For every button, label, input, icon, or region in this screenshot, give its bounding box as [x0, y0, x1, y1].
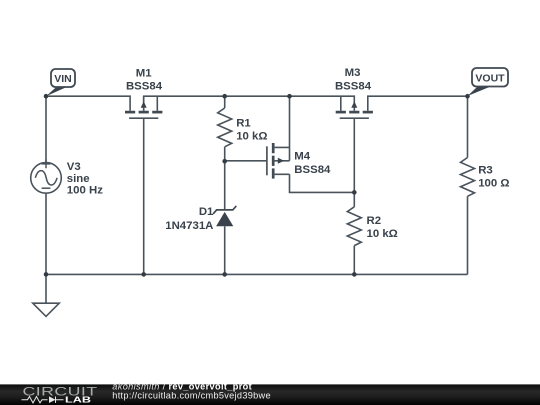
node R1/D1/M4-gate junction: [222, 159, 227, 164]
transistor M4 (PMOS BSS84, vertical): [267, 143, 290, 179]
svg-text:100 Ω: 100 Ω: [478, 177, 509, 189]
svg-text:sine: sine: [67, 173, 90, 185]
wire ground stem: [45, 274, 47, 303]
wire M4 gate lead from R1 node: [225, 160, 267, 162]
wire D1 anode to bottom rail: [224, 226, 226, 274]
wire R2 top lead: [353, 192, 355, 206]
wire top rail segment M1 source/body to M3 body: [144, 96, 355, 111]
node VOUT flag: [468, 68, 509, 96]
svg-text:LAB: LAB: [65, 394, 91, 404]
node VIN flag: [46, 69, 75, 96]
node R2 rail junction: [352, 272, 357, 277]
resistor R2: [347, 207, 361, 246]
node ground rail junction left: [44, 272, 49, 277]
node M1-gate rail junction: [141, 272, 146, 277]
resistor R1: [218, 108, 232, 147]
wire node to D1 cathode: [224, 161, 226, 210]
node M3-gate/M4-source/R2 junction: [352, 190, 357, 195]
footer bar: [0, 384, 540, 405]
wire left rail VIN to V3 top: [45, 96, 47, 162]
svg-text:R1: R1: [236, 118, 251, 130]
svg-text:1N4731A: 1N4731A: [165, 220, 213, 232]
wire R1 top lead: [224, 96, 226, 108]
svg-text:BSS84: BSS84: [335, 81, 372, 93]
ground: [33, 303, 59, 316]
wire M1 gate lead down to bottom rail: [143, 118, 145, 274]
svg-text:R2: R2: [367, 215, 382, 227]
footer logo CIRCUIT: [23, 385, 98, 398]
wire bottom rail: [46, 273, 468, 275]
wire M4 source down and right to R2 node: [290, 174, 355, 192]
voltage source V3: [31, 160, 62, 194]
transistor M3 (PMOS BSS84, horizontal on top rail): [336, 96, 373, 118]
wire R3 top lead: [467, 96, 469, 157]
wire R1 bottom lead to node: [224, 147, 226, 161]
svg-text:10 kΩ: 10 kΩ: [367, 228, 398, 240]
node VOUT junction: [465, 94, 470, 99]
svg-text:VOUT: VOUT: [475, 73, 505, 85]
svg-text:100 Hz: 100 Hz: [67, 185, 103, 197]
svg-text:M4: M4: [294, 150, 310, 162]
svg-text:10 kΩ: 10 kΩ: [236, 130, 267, 142]
wire R2 bottom lead: [353, 246, 355, 275]
node D1 rail junction: [222, 272, 227, 277]
wire top rail segment M3 drain to VOUT: [368, 96, 468, 111]
transistor M1 (PMOS BSS84, horizontal on top rail): [125, 96, 162, 118]
svg-text:VIN: VIN: [54, 73, 72, 85]
svg-text:D1: D1: [199, 206, 214, 218]
node M4 drain junction: [287, 94, 292, 99]
footer logo resistor-diode squiggle: [22, 397, 64, 403]
svg-text:M1: M1: [136, 68, 152, 80]
wire M3 gate lead down to R2 node: [353, 118, 355, 192]
svg-text:V3: V3: [67, 161, 81, 173]
wire top rail segment VIN to M1 drain: [46, 96, 130, 111]
svg-text:BSS84: BSS84: [294, 164, 331, 176]
wire M4 drain/body tie up to top rail: [289, 96, 291, 161]
svg-text:R3: R3: [478, 164, 493, 176]
resistor R3: [461, 158, 475, 197]
svg-text:http://circuitlab.com/cmb5vejd: http://circuitlab.com/cmb5vejd39bwe: [112, 391, 271, 401]
node VIN junction: [44, 94, 49, 99]
wire V3 bottom to bottom rail: [45, 193, 47, 274]
node R1 top junction: [222, 94, 227, 99]
svg-text:BSS84: BSS84: [126, 81, 163, 93]
zener diode D1 1N4731A: [213, 206, 236, 226]
svg-text:M3: M3: [345, 67, 361, 79]
wire R3 bottom lead: [467, 196, 469, 274]
